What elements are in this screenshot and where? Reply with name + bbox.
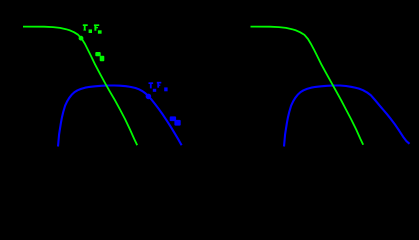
right panel: blue curve (rise, plateau, broader fall) <box>284 86 410 147</box>
left panel: blue label "T_F" (T subscript blob) <box>153 89 156 92</box>
left panel: green small "s" label on falling slope (upper blob) <box>95 52 100 56</box>
left panel: blue small "s" label on falling slope (upper blob) <box>170 116 176 121</box>
left panel: green small "s" label on falling slope (lower blob) <box>100 56 105 62</box>
right panel: green curve (plateau then steep fall) <box>251 27 364 145</box>
left panel: blue label "T_F" (F glyph) <box>157 82 162 88</box>
left panel: blue label "T_F" (T glyph) <box>149 82 154 88</box>
left panel: blue small "s" label on falling slope (lower blob) <box>174 120 180 126</box>
left panel: green label "T_F" (F subscript blob) <box>98 30 102 33</box>
left panel: green label "T_F" (T glyph) <box>83 24 88 30</box>
left panel: blue curve (rise, plateau, fall) <box>58 86 182 147</box>
left panel: green curve (plateau then steep fall) <box>23 27 137 146</box>
left panel: green label "T_F" (T subscript blob) <box>89 29 92 33</box>
left panel: green marker dot on green curve <box>79 36 84 41</box>
left panel: blue label "T_F" (F subscript blob) <box>164 87 167 91</box>
left panel: blue marker dot on blue curve <box>146 94 152 100</box>
left panel: green label "T_F" (F glyph) <box>94 24 99 30</box>
